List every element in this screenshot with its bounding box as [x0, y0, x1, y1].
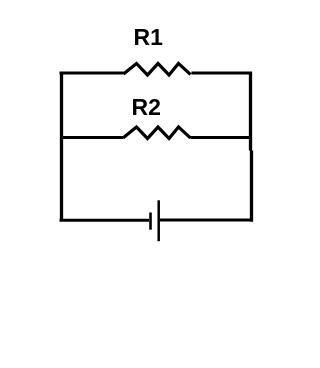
wire bottom right segment [160, 219, 253, 222]
wire top right segment [192, 72, 252, 75]
resistor R2 [123, 127, 191, 139]
wire middle right segment [191, 136, 252, 139]
svg-text:R1: R1 [134, 24, 164, 50]
battery negative plate (short) [149, 213, 152, 230]
wire right vertical upper [249, 72, 252, 151]
wire top left segment [60, 72, 124, 75]
wire right vertical lower [250, 151, 253, 222]
battery positive plate (long) [157, 200, 160, 241]
wire middle left segment [60, 136, 123, 139]
svg-text:R2: R2 [132, 94, 161, 120]
wire bottom left segment [60, 219, 150, 222]
resistor R1 [124, 64, 191, 76]
wire left vertical [60, 72, 63, 222]
